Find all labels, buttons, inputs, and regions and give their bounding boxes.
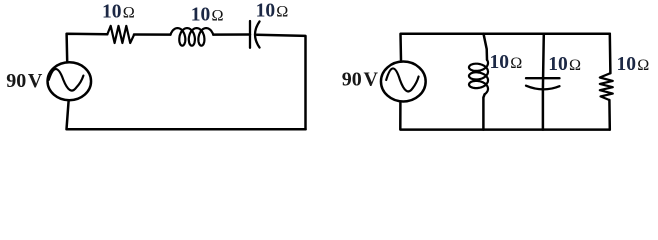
wire: resistor R2 top stub bbox=[609, 34, 612, 73]
wire: inductor L1 to capacitor C1 bbox=[213, 33, 250, 36]
wire: inductor L2 bottom stub bbox=[483, 94, 484, 129]
svg-text:90 V: 90 V bbox=[342, 69, 379, 91]
wire: right circuit, source bottom stub, bottom rail bbox=[400, 103, 610, 130]
capacitor C2 top plate (straight) bbox=[526, 77, 560, 79]
AC source V1 sine wave with hooked tail bbox=[49, 69, 84, 90]
resistor R1 10ohm (left circuit, horizontal zigzag) bbox=[107, 26, 134, 43]
AC source V2 sine wave with hooked tail bbox=[386, 68, 418, 91]
svg-text:10Ω: 10Ω bbox=[490, 52, 523, 73]
wire: right circuit, source top stub, top rail bbox=[401, 34, 610, 61]
svg-text:10Ω: 10Ω bbox=[191, 4, 224, 25]
svg-text:10Ω: 10Ω bbox=[102, 1, 135, 22]
wire: capacitor C2 branch vertical (continuous through plates) bbox=[542, 34, 545, 130]
svg-text:10Ω: 10Ω bbox=[256, 1, 289, 22]
svg-text:10Ω: 10Ω bbox=[548, 54, 581, 75]
inductor L1 10ohm (left circuit, horizontal loops) bbox=[171, 28, 214, 46]
wire: inductor L2 top stub (tilted) bbox=[484, 34, 488, 60]
capacitor C1 left plate (straight) bbox=[249, 21, 251, 48]
wire: left circuit, source top stub and top-left corner bbox=[67, 34, 108, 62]
wire: capacitor C1 to top-right corner, right side of left circuit bbox=[257, 35, 306, 130]
AC source V1 ellipse (left circuit) bbox=[48, 62, 92, 100]
wire: left circuit bottom rail bbox=[67, 101, 306, 129]
AC source V2 ellipse (right circuit) bbox=[381, 62, 426, 102]
capacitor C1 right plate (curved) bbox=[255, 22, 260, 48]
svg-text:10Ω: 10Ω bbox=[617, 54, 650, 75]
wire: resistor R2 bottom stub and right side bbox=[608, 100, 611, 130]
inductor L2 10ohm (right circuit, vertical loops) bbox=[469, 60, 488, 94]
resistor R2 10ohm (right circuit, vertical zigzag) bbox=[600, 73, 613, 100]
wire: resistor R1 to inductor L1 bbox=[134, 33, 171, 36]
svg-text:90 V: 90 V bbox=[6, 70, 43, 92]
capacitor C2 bottom plate (curved) bbox=[526, 86, 560, 90]
